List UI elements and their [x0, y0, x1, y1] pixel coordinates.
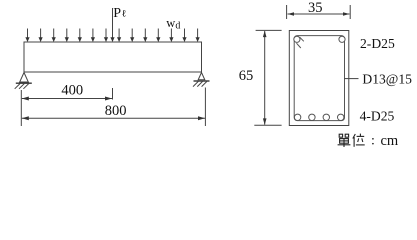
distributed load arrow 6: [91, 29, 95, 43]
left support hatches: [15, 84, 29, 89]
distributed load arrow 3: [52, 29, 56, 43]
distributed load arrow 8: [117, 29, 121, 43]
left extension line: [20, 90, 22, 126]
point load P arrow: [110, 8, 114, 42]
svg-text:D13@15: D13@15: [362, 72, 412, 87]
right support triangle: [198, 73, 205, 80]
distributed load arrow 5: [78, 29, 82, 43]
right support hatches: [193, 81, 207, 86]
left support ground line: [16, 82, 32, 84]
stirrup hook line 1: [300, 37, 304, 41]
right support ground line: [194, 80, 210, 82]
svg-text:400: 400: [61, 82, 83, 98]
right extension line: [204, 88, 206, 127]
svg-text:cm: cm: [381, 133, 399, 149]
unit label: char 位: [353, 134, 365, 147]
leader for D13@15: [344, 78, 359, 80]
top-right bar: [339, 36, 345, 42]
distributed load arrow 11: [156, 29, 160, 43]
dimension line 400: [22, 97, 112, 101]
top dimension right tick: [349, 5, 351, 19]
left support triangle: [20, 73, 29, 83]
beam outline: [24, 42, 202, 72]
svg-text:Pℓ: Pℓ: [113, 6, 126, 21]
distributed load arrow 14: [196, 29, 200, 43]
top dimension left tick: [286, 5, 288, 19]
bottom bar 3 of 4-D25: [323, 114, 329, 120]
dimension line 65: [263, 31, 267, 125]
svg-text::: :: [371, 134, 375, 149]
dimension line 800: [22, 116, 205, 120]
bottom bar 1 of 4-D25: [294, 114, 300, 120]
svg-text:35: 35: [308, 0, 323, 16]
svg-text:2-D25: 2-D25: [360, 36, 395, 51]
section outer rectangle: [289, 31, 349, 126]
svg-text:wd: wd: [166, 16, 180, 32]
bottom bar 4 of 4-D25: [338, 114, 344, 120]
unit label: char 單: [338, 134, 351, 147]
svg-text:65: 65: [239, 68, 254, 84]
65 bottom extension line: [254, 124, 281, 126]
distributed load arrow 13: [182, 29, 186, 43]
distributed load arrow 4: [65, 29, 69, 43]
svg-text:800: 800: [105, 103, 127, 119]
distributed load arrow 10: [143, 29, 147, 43]
distributed load arrow 7: [104, 29, 108, 43]
distributed load arrow 1: [25, 29, 29, 43]
stirrup D13: [294, 36, 344, 121]
distributed load arrow 12: [169, 29, 173, 43]
midspan tick: [112, 88, 114, 100]
dimension line 35: [288, 12, 350, 16]
65 top extension line: [256, 29, 282, 31]
top-left bar: [294, 36, 300, 42]
svg-text:4-D25: 4-D25: [360, 109, 395, 124]
bottom bar 2 of 4-D25: [309, 114, 315, 120]
distributed load arrow 9: [130, 29, 134, 43]
distributed load arrow 2: [39, 29, 43, 43]
stirrup hook line 2: [297, 43, 301, 48]
